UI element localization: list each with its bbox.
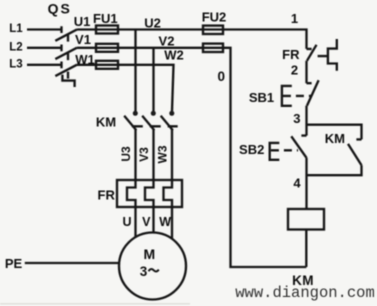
svg-text:1: 1	[291, 11, 298, 26]
svg-text:U: U	[122, 215, 131, 229]
svg-text:4: 4	[293, 176, 301, 191]
svg-text:KM: KM	[325, 131, 345, 146]
svg-text:0: 0	[218, 69, 226, 84]
svg-text:FR: FR	[282, 47, 300, 62]
svg-text:QS: QS	[48, 0, 72, 16]
svg-text:U1: U1	[74, 14, 91, 29]
svg-text:L1: L1	[9, 23, 23, 35]
svg-text:V1: V1	[75, 32, 91, 47]
svg-text:3: 3	[293, 111, 300, 126]
svg-text:W3: W3	[156, 145, 170, 163]
svg-text:L2: L2	[9, 41, 22, 53]
svg-text:FU1: FU1	[93, 11, 118, 26]
svg-text:V: V	[142, 215, 151, 229]
svg-text:W2: W2	[164, 48, 184, 63]
svg-text:PE: PE	[5, 256, 23, 271]
svg-text:U3: U3	[119, 146, 133, 162]
svg-text:SB2: SB2	[239, 142, 264, 157]
svg-text:W: W	[159, 215, 171, 229]
svg-text:FR: FR	[98, 188, 116, 203]
svg-text:FU2: FU2	[202, 10, 227, 25]
svg-text:L3: L3	[9, 58, 22, 70]
svg-text:W1: W1	[75, 52, 95, 67]
svg-text:U2: U2	[144, 16, 161, 31]
svg-text:V3: V3	[137, 147, 151, 162]
svg-text:KM: KM	[96, 114, 116, 129]
svg-text:3: 3	[140, 264, 148, 279]
svg-text:www.diangon.com: www.diangon.com	[235, 284, 375, 302]
svg-text:M: M	[143, 246, 155, 262]
svg-text:2: 2	[291, 62, 298, 77]
svg-text:V2: V2	[159, 34, 175, 49]
svg-text:SB1: SB1	[249, 90, 274, 105]
